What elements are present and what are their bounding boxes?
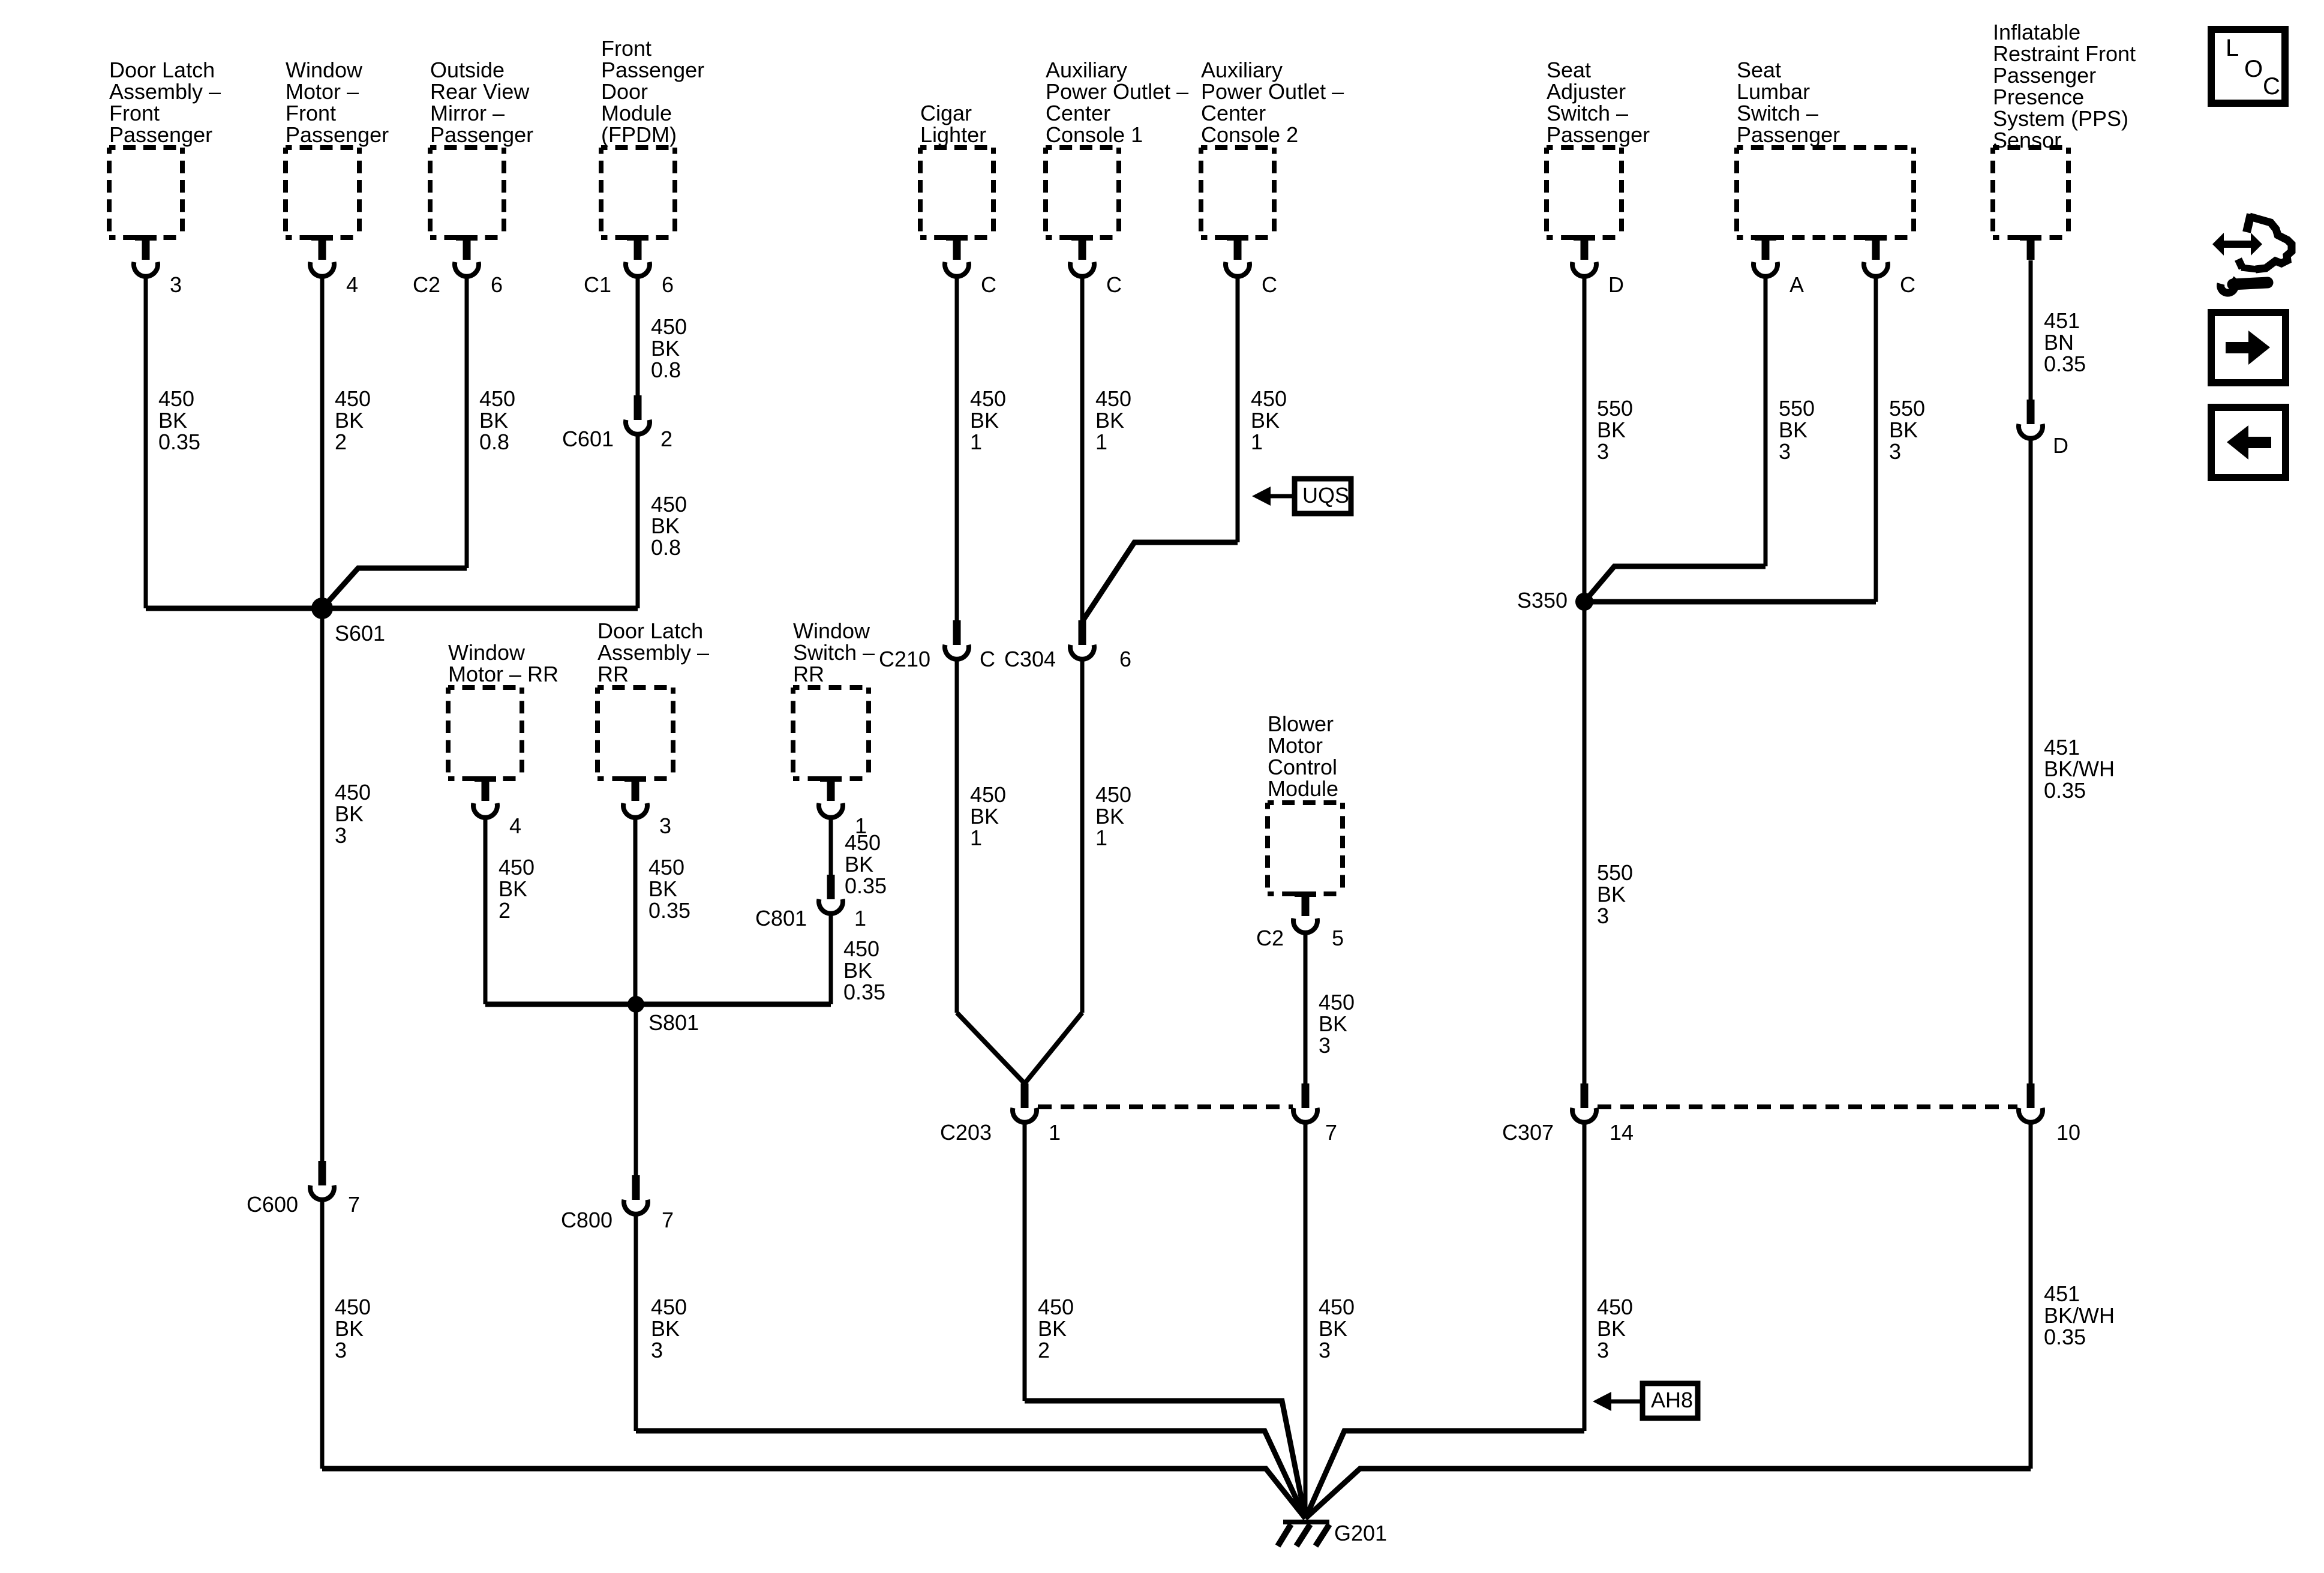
svg-text:D: D xyxy=(2053,433,2068,458)
svg-text:Window: Window xyxy=(448,640,526,665)
wire 451 BK/WH 0.35 from connector D to pin 10 xyxy=(2029,437,2033,1083)
svg-text:0.8: 0.8 xyxy=(651,535,681,560)
svg-text:Auxiliary: Auxiliary xyxy=(1201,58,1283,82)
svg-text:Cigar: Cigar xyxy=(920,101,972,125)
svg-text:Door Latch: Door Latch xyxy=(109,58,215,82)
component Outside Rear View Mirror - Passenger xyxy=(430,58,533,238)
svg-text:Seat: Seat xyxy=(1737,58,1781,82)
component Auxiliary Power Outlet - Center Console 1 xyxy=(1046,58,1188,238)
svg-text:450: 450 xyxy=(845,830,881,855)
svg-text:C203: C203 xyxy=(940,1120,992,1145)
svg-text:1: 1 xyxy=(1251,430,1263,454)
svg-text:1: 1 xyxy=(1095,430,1107,454)
svg-text:BK: BK xyxy=(970,408,999,433)
component Seat Adjuster Switch - Passenger xyxy=(1547,58,1650,238)
svg-text:2: 2 xyxy=(660,427,672,451)
svg-text:BK: BK xyxy=(335,408,364,433)
svg-text:BK: BK xyxy=(1095,804,1124,828)
svg-text:RR: RR xyxy=(793,662,824,686)
svg-text:7: 7 xyxy=(1325,1120,1337,1145)
connector pin 6 of component Outside Rear View Mirror - Passenger xyxy=(413,235,503,297)
svg-text:Mirror –: Mirror – xyxy=(430,101,505,125)
LOC legend box xyxy=(2211,29,2285,103)
svg-text:Passenger: Passenger xyxy=(109,122,212,147)
svg-text:(FPDM): (FPDM) xyxy=(601,122,677,147)
splice S601 xyxy=(311,598,385,646)
svg-text:BK: BK xyxy=(970,804,999,828)
svg-text:3: 3 xyxy=(335,823,347,848)
svg-text:BK: BK xyxy=(499,876,527,901)
svg-text:Lumbar: Lumbar xyxy=(1737,79,1810,104)
wire 450 BK 0.8 from Outside Rear View Mirror pin 6 to S601 xyxy=(465,275,469,568)
svg-text:Window: Window xyxy=(793,619,870,643)
callout AH8 with arrow xyxy=(1593,1383,1698,1418)
wire 450 BK 0.8 from FPDM C1 pin 6 to C601 xyxy=(636,275,640,395)
svg-text:Blower: Blower xyxy=(1268,712,1334,736)
connector pin D of component Seat Adjuster Switch - Passenger xyxy=(1572,235,1624,297)
wire 450 BK 1 from Auxiliary Power Outlet Center Console 1 pin C to C304 xyxy=(1080,275,1085,620)
svg-text:Window: Window xyxy=(286,58,363,82)
connector pin C of component Cigar Lighter xyxy=(945,235,996,297)
svg-text:Control: Control xyxy=(1268,755,1337,779)
svg-text:Console 2: Console 2 xyxy=(1201,122,1298,147)
connector pin C2 5 of Blower Motor Control Module xyxy=(1256,891,1344,950)
svg-text:BK: BK xyxy=(1889,418,1918,442)
svg-text:Auxiliary: Auxiliary xyxy=(1046,58,1127,82)
svg-text:4: 4 xyxy=(346,272,358,297)
svg-text:BK: BK xyxy=(1095,408,1124,433)
svg-text:0.35: 0.35 xyxy=(2044,778,2086,803)
svg-text:C: C xyxy=(1262,272,1277,297)
svg-text:Front: Front xyxy=(109,101,160,125)
svg-text:BK: BK xyxy=(843,958,872,983)
svg-text:G201: G201 xyxy=(1334,1521,1387,1545)
wire 450 BK 3 from C800 pin 7 to G201 xyxy=(634,1213,638,1431)
svg-text:BK: BK xyxy=(335,1316,364,1341)
svg-text:D: D xyxy=(1608,272,1624,297)
svg-text:6: 6 xyxy=(491,272,503,297)
svg-text:550: 550 xyxy=(1597,396,1633,421)
svg-text:450: 450 xyxy=(1095,386,1131,411)
connector C203 pin 1 xyxy=(940,1083,1061,1145)
svg-text:BK: BK xyxy=(648,876,677,901)
connector pin A of component Seat Lumbar Switch - Passenger xyxy=(1753,235,1804,297)
wire 450 BK 0.35 from Door Latch Assembly Front Passenger pin 3 to S601 xyxy=(144,275,148,608)
wire 450 BK 2 from Window Motor Front Passenger pin 4 to S601 xyxy=(320,275,325,608)
svg-text:3: 3 xyxy=(335,1338,347,1362)
svg-text:S601: S601 xyxy=(335,621,385,646)
wire 450 BK 1 from Auxiliary Power Outlet Center Console 2 pin C to C304 xyxy=(1236,275,1240,542)
wire 450 BK 2 from Window Motor RR pin 4 to S801 xyxy=(484,816,488,1004)
svg-text:Passenger: Passenger xyxy=(430,122,533,147)
connector pin 4 of component Window Motor - Front Passenger xyxy=(310,235,358,297)
dashed connector boundary C203 xyxy=(1038,1104,1293,1109)
svg-text:450: 450 xyxy=(970,386,1006,411)
svg-text:450: 450 xyxy=(1095,782,1131,807)
wire 550 BK 3 from Seat Lumbar Switch pin A to S350 xyxy=(1764,275,1768,566)
svg-text:Passenger: Passenger xyxy=(1737,122,1840,147)
svg-text:6: 6 xyxy=(662,272,674,297)
svg-text:Switch –: Switch – xyxy=(793,640,875,665)
svg-text:C304: C304 xyxy=(1004,647,1056,671)
svg-text:0.35: 0.35 xyxy=(2044,1325,2086,1349)
component Door Latch Assembly - Front Passenger xyxy=(109,58,221,238)
svg-text:Presence: Presence xyxy=(1993,85,2084,109)
svg-text:C2: C2 xyxy=(413,272,440,297)
wire 450 BK 1 from C304 to C203 pin 1 xyxy=(1080,658,1085,1013)
svg-text:Front: Front xyxy=(601,36,651,61)
wire 450 BK 3 from C203 pin 7 to G201 xyxy=(1304,1121,1308,1518)
svg-text:3: 3 xyxy=(659,813,671,838)
svg-text:BK: BK xyxy=(1779,418,1807,442)
wire 450 BK 0.8 from C601 pin 2 to S601 xyxy=(636,433,640,608)
svg-text:AH8: AH8 xyxy=(1651,1388,1693,1412)
svg-text:550: 550 xyxy=(1779,396,1815,421)
svg-text:550: 550 xyxy=(1597,860,1633,885)
component Seat Lumbar Switch - Passenger xyxy=(1737,58,1914,238)
svg-text:3: 3 xyxy=(651,1338,663,1362)
svg-text:450: 450 xyxy=(970,782,1006,807)
wire 450 BK 2 from C203 pin 1 to G201 xyxy=(1023,1121,1027,1401)
svg-text:Power Outlet –: Power Outlet – xyxy=(1201,79,1344,104)
svg-text:Lighter: Lighter xyxy=(920,122,986,147)
svg-text:S350: S350 xyxy=(1517,588,1568,613)
svg-text:450: 450 xyxy=(1038,1295,1074,1319)
svg-text:BK: BK xyxy=(845,852,873,876)
svg-text:450: 450 xyxy=(651,492,687,517)
svg-text:Front: Front xyxy=(286,101,336,125)
svg-text:C600: C600 xyxy=(247,1192,298,1217)
svg-text:Restraint Front: Restraint Front xyxy=(1993,41,2136,66)
diagnostic icon: double arrow, connector outline and wrench xyxy=(2212,214,2292,293)
wire 450 BK 0.35 from C801 pin 1 to S801 xyxy=(829,912,833,1004)
svg-text:450: 450 xyxy=(158,386,194,411)
svg-text:0.8: 0.8 xyxy=(479,430,509,454)
svg-text:BK: BK xyxy=(1251,408,1280,433)
svg-text:Rear View: Rear View xyxy=(430,79,530,104)
svg-text:Switch –: Switch – xyxy=(1737,101,1818,125)
svg-text:451: 451 xyxy=(2044,1281,2080,1306)
svg-text:C1: C1 xyxy=(584,272,611,297)
wire 451 BK/WH 0.35 from pin 10 to G201 xyxy=(2029,1121,2033,1469)
ground G201 xyxy=(1278,1521,1387,1546)
connector pin of component Inflatable Restraint Front Passenger Presence System (PPS) Sensor xyxy=(2020,235,2041,260)
svg-text:Inflatable: Inflatable xyxy=(1993,20,2080,44)
component Front Passenger Door Module (FPDM) xyxy=(601,36,704,238)
svg-text:Motor –: Motor – xyxy=(286,79,359,104)
wire 450 BK 3 from Blower Motor Control Module C2 pin 5 to C203 pin 7 xyxy=(1304,932,1308,1083)
svg-text:BK: BK xyxy=(651,1316,680,1341)
wire 450 BK 0.35 from Window Switch RR pin 1 to C801 xyxy=(829,816,833,875)
legend box: arrow right xyxy=(2211,313,2286,383)
svg-text:BK: BK xyxy=(1597,1316,1626,1341)
svg-text:BK: BK xyxy=(1319,1316,1347,1341)
svg-text:550: 550 xyxy=(1889,396,1925,421)
svg-text:Assembly –: Assembly – xyxy=(109,79,221,104)
component Cigar Lighter xyxy=(920,101,993,238)
wire 450 BK 3 from C307 pin 14 to G201 xyxy=(1583,1121,1587,1431)
connector pin 4 of component Window Motor - RR xyxy=(473,776,521,838)
svg-text:Passenger: Passenger xyxy=(1547,122,1650,147)
legend box: arrow left xyxy=(2211,407,2286,478)
svg-text:7: 7 xyxy=(662,1208,674,1232)
svg-text:451: 451 xyxy=(2044,308,2080,333)
connector C304 pin 6 xyxy=(1004,620,1131,671)
svg-text:BN: BN xyxy=(2044,330,2074,355)
svg-text:4: 4 xyxy=(509,813,521,838)
svg-text:RR: RR xyxy=(597,662,629,686)
svg-text:System (PPS): System (PPS) xyxy=(1993,106,2128,131)
svg-text:1: 1 xyxy=(1095,825,1107,850)
connector pin 1 of component Window Switch - RR xyxy=(819,776,867,838)
svg-text:1: 1 xyxy=(970,430,982,454)
svg-text:450: 450 xyxy=(1319,1295,1355,1319)
svg-text:C: C xyxy=(980,647,995,671)
svg-text:0.35: 0.35 xyxy=(843,980,885,1004)
svg-text:450: 450 xyxy=(335,1295,371,1319)
svg-text:1: 1 xyxy=(1049,1120,1061,1145)
svg-text:Switch –: Switch – xyxy=(1547,101,1628,125)
svg-text:450: 450 xyxy=(1319,990,1355,1014)
svg-text:450: 450 xyxy=(651,314,687,339)
svg-text:6: 6 xyxy=(1119,647,1131,671)
svg-text:Door Latch: Door Latch xyxy=(597,619,703,643)
svg-text:14: 14 xyxy=(1610,1120,1634,1145)
svg-text:Center: Center xyxy=(1201,101,1266,125)
svg-text:3: 3 xyxy=(1597,439,1609,464)
svg-text:Console 1: Console 1 xyxy=(1046,122,1143,147)
splice S801 xyxy=(627,996,699,1035)
svg-text:450: 450 xyxy=(335,386,371,411)
svg-text:S801: S801 xyxy=(648,1010,699,1035)
svg-text:450: 450 xyxy=(651,1295,687,1319)
wire 450 BK 3 from S801 to C800 xyxy=(634,1004,638,1175)
connector C601 pin 2 xyxy=(562,395,672,451)
svg-text:1: 1 xyxy=(970,825,982,850)
connector pin C of component Seat Lumbar Switch - Passenger xyxy=(1864,235,1915,297)
svg-text:0.35: 0.35 xyxy=(2044,352,2086,376)
svg-text:BK: BK xyxy=(651,514,680,538)
connector C600 pin 7 xyxy=(247,1161,360,1217)
svg-text:450: 450 xyxy=(1251,386,1287,411)
svg-text:BK: BK xyxy=(1319,1011,1347,1036)
svg-text:450: 450 xyxy=(843,936,879,961)
svg-text:C: C xyxy=(981,272,996,297)
svg-text:C601: C601 xyxy=(562,427,614,451)
connector pin 3 of component Door Latch Assembly - RR xyxy=(623,776,671,838)
svg-text:A: A xyxy=(1789,272,1804,297)
svg-text:0.35: 0.35 xyxy=(648,898,690,923)
svg-text:Assembly –: Assembly – xyxy=(597,640,709,665)
svg-text:Module: Module xyxy=(1268,776,1338,801)
connector C203 pin 7 xyxy=(1293,1083,1337,1145)
svg-text:3: 3 xyxy=(1889,439,1901,464)
svg-text:3: 3 xyxy=(1319,1033,1331,1058)
svg-text:3: 3 xyxy=(1779,439,1791,464)
wire 550 BK 3 from Seat Adjuster Switch pin D to S350 xyxy=(1583,275,1587,602)
svg-text:450: 450 xyxy=(335,780,371,804)
connector C210 pin C xyxy=(879,620,995,671)
svg-text:5: 5 xyxy=(1332,926,1344,950)
svg-text:BK: BK xyxy=(335,801,364,826)
svg-text:Motor – RR: Motor – RR xyxy=(448,662,559,686)
connector pin C of component Auxiliary Power Outlet - Center Console 2 xyxy=(1226,235,1277,297)
svg-text:2: 2 xyxy=(1038,1338,1050,1362)
svg-text:Adjuster: Adjuster xyxy=(1547,79,1626,104)
svg-text:Passenger: Passenger xyxy=(601,58,704,82)
svg-text:3: 3 xyxy=(1597,903,1609,928)
component Window Motor - RR xyxy=(448,640,559,779)
component Window Motor - Front Passenger xyxy=(286,58,389,238)
splice S350 xyxy=(1517,588,1593,613)
svg-text:Center: Center xyxy=(1046,101,1110,125)
wire 550 BK 3 from S350 to C307 xyxy=(1583,602,1587,1083)
svg-text:450: 450 xyxy=(1597,1295,1633,1319)
wire 450 BK 3 from S601 to C600 xyxy=(320,608,325,1161)
svg-text:0.8: 0.8 xyxy=(651,358,681,382)
connector D inline on PPS wire xyxy=(2019,400,2068,458)
callout UQS with arrow xyxy=(1252,479,1351,514)
svg-text:3: 3 xyxy=(1319,1338,1331,1362)
wire 450 BK 0.35 from Door Latch Assembly RR pin 3 to S801 xyxy=(633,816,638,1004)
svg-text:BK/WH: BK/WH xyxy=(2044,757,2115,781)
svg-text:0.35: 0.35 xyxy=(845,873,887,898)
connector pin 3 of component Door Latch Assembly - Front Passenger xyxy=(134,235,182,297)
svg-text:3: 3 xyxy=(170,272,182,297)
svg-text:Outside: Outside xyxy=(430,58,505,82)
svg-text:C: C xyxy=(1900,272,1915,297)
svg-text:Power Outlet –: Power Outlet – xyxy=(1046,79,1188,104)
svg-text:7: 7 xyxy=(348,1192,360,1217)
svg-text:Door: Door xyxy=(601,79,648,104)
svg-text:BK: BK xyxy=(158,408,187,433)
connector pin 6 of component Front Passenger Door Module (FPDM) xyxy=(584,235,674,297)
wire bus S601 horizontal xyxy=(146,606,638,611)
wire 451 BN 0.35 from PPS Sensor to inline connector D xyxy=(2029,260,2033,400)
svg-text:3: 3 xyxy=(1597,1338,1609,1362)
wire 450 BK 3 from C600 pin 7 to G201 xyxy=(320,1199,325,1469)
svg-text:450: 450 xyxy=(648,855,684,879)
connector pin 10 on PPS wire xyxy=(2019,1083,2080,1145)
component Auxiliary Power Outlet - Center Console 2 xyxy=(1201,58,1344,238)
svg-text:2: 2 xyxy=(499,898,511,923)
svg-text:2: 2 xyxy=(335,430,347,454)
wire 550 BK 3 from Seat Lumbar Switch pin C to S350 xyxy=(1874,275,1878,602)
svg-text:BK: BK xyxy=(479,408,508,433)
svg-text:BK: BK xyxy=(651,336,680,361)
connector C801 pin 1 xyxy=(755,875,866,930)
svg-text:450: 450 xyxy=(479,386,515,411)
wire 450 BK 1 from Cigar Lighter pin C to C210 xyxy=(955,275,959,620)
svg-text:10: 10 xyxy=(2056,1120,2080,1145)
svg-text:C801: C801 xyxy=(755,906,807,930)
svg-text:O: O xyxy=(2244,56,2263,82)
dashed connector boundary C307 xyxy=(1598,1104,2017,1109)
component Inflatable Restraint Front Passenger Presence System (PPS) Sensor xyxy=(1993,20,2136,238)
component Window Switch - RR xyxy=(793,619,875,779)
connector C800 pin 7 xyxy=(561,1175,674,1232)
svg-text:451: 451 xyxy=(2044,735,2080,760)
svg-text:C: C xyxy=(1106,272,1122,297)
svg-text:C307: C307 xyxy=(1502,1120,1554,1145)
svg-text:C: C xyxy=(2263,73,2280,100)
svg-text:BK: BK xyxy=(1038,1316,1067,1341)
component Blower Motor Control Module xyxy=(1268,712,1343,894)
svg-text:Seat: Seat xyxy=(1547,58,1591,82)
svg-text:Passenger: Passenger xyxy=(1993,63,2096,88)
wire 450 BK 1 from C210 to C203 pin 1 xyxy=(955,658,959,1013)
svg-text:Motor: Motor xyxy=(1268,733,1323,758)
svg-text:BK: BK xyxy=(1597,418,1626,442)
component Door Latch Assembly - RR xyxy=(597,619,709,779)
svg-text:450: 450 xyxy=(499,855,535,879)
svg-text:0.35: 0.35 xyxy=(158,430,200,454)
svg-text:C2: C2 xyxy=(1256,926,1284,950)
svg-text:UQS: UQS xyxy=(1302,483,1349,508)
svg-text:BK/WH: BK/WH xyxy=(2044,1303,2115,1328)
svg-text:C800: C800 xyxy=(561,1208,612,1232)
svg-text:Module: Module xyxy=(601,101,672,125)
svg-text:Passenger: Passenger xyxy=(286,122,389,147)
connector pin C of component Auxiliary Power Outlet - Center Console 1 xyxy=(1070,235,1122,297)
svg-text:C210: C210 xyxy=(879,647,930,671)
svg-text:BK: BK xyxy=(1597,882,1626,906)
svg-text:1: 1 xyxy=(854,906,866,930)
svg-text:L: L xyxy=(2226,35,2239,61)
connector C307 pin 14 xyxy=(1502,1083,1634,1145)
